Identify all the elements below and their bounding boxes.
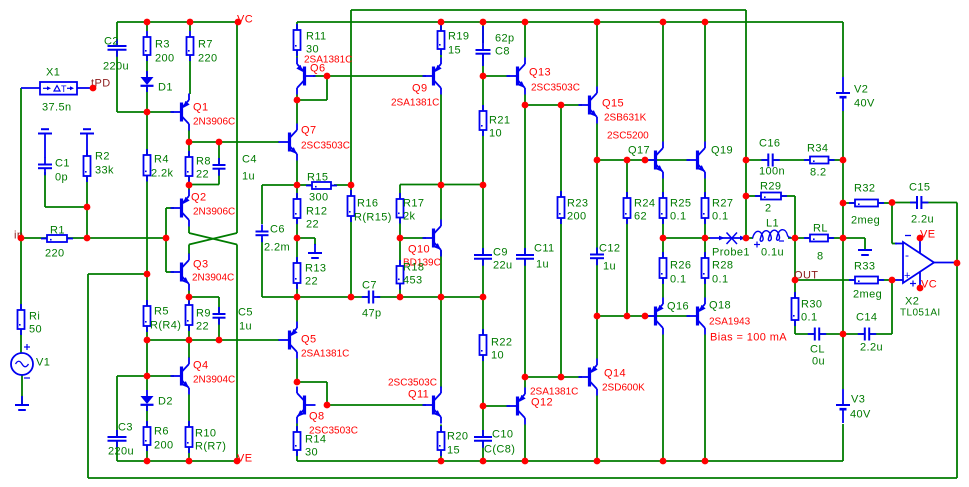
wire (297, 184, 311, 186)
junction (840, 235, 847, 242)
svg-text:8.2: 8.2 (810, 167, 827, 179)
wire (483, 75, 510, 77)
resistor R7 (187, 31, 218, 65)
wire (596, 259, 598, 317)
transistor Q11 (388, 378, 441, 424)
wire (662, 238, 664, 258)
junction (438, 19, 445, 26)
capacitor C14 (856, 312, 883, 354)
transistor Q8 (297, 387, 358, 437)
svg-text:Q17: Q17 (628, 145, 650, 157)
svg-text:2N3906C: 2N3906C (193, 207, 235, 218)
svg-text:Q8: Q8 (309, 411, 324, 423)
wire (188, 245, 190, 255)
junction (186, 182, 193, 189)
wire (524, 105, 526, 255)
svg-text:220u: 220u (108, 446, 134, 458)
junction (294, 182, 301, 189)
svg-text:C10: C10 (492, 429, 513, 441)
node VC (237, 14, 253, 26)
wire (704, 278, 706, 298)
svg-text:0.1: 0.1 (712, 274, 729, 286)
svg-text:Q14: Q14 (604, 368, 626, 380)
wire (146, 376, 148, 390)
wire (524, 425, 526, 462)
wire (296, 450, 298, 461)
wire (482, 406, 484, 437)
svg-text:Q18: Q18 (709, 300, 731, 312)
resistor R32 (849, 183, 884, 227)
resistor R19 (438, 25, 470, 57)
svg-text:R29: R29 (760, 181, 781, 193)
wire (704, 238, 706, 258)
svg-text:2SA1381C: 2SA1381C (391, 98, 439, 109)
svg-text:T: T (61, 84, 67, 94)
svg-text:C2: C2 (104, 36, 119, 48)
wire (704, 218, 706, 238)
junction (660, 235, 667, 242)
wire (146, 445, 148, 461)
wire (921, 202, 957, 204)
junction (438, 458, 445, 465)
resistor R2 (84, 150, 115, 182)
wire (313, 75, 327, 77)
wire (296, 283, 298, 297)
wire (399, 218, 401, 239)
wire (296, 238, 298, 263)
wire (662, 179, 664, 199)
svg-text:R2: R2 (95, 151, 110, 163)
svg-text:Q4: Q4 (193, 360, 208, 372)
wire (662, 278, 664, 298)
resistor R17 (397, 193, 425, 224)
junction (522, 19, 529, 26)
junction (144, 373, 151, 380)
wire (482, 441, 484, 461)
wire (326, 382, 328, 405)
wire (746, 237, 753, 239)
wire (746, 195, 761, 197)
svg-text:2SC3503C: 2SC3503C (531, 83, 580, 94)
wire (117, 460, 237, 462)
svg-text:Bias = 100 mA: Bias = 100 mA (710, 332, 787, 344)
resistor R15 (306, 172, 337, 204)
wire (794, 196, 796, 238)
wire (189, 296, 219, 298)
svg-text:200: 200 (567, 211, 587, 223)
junction (889, 277, 896, 284)
svg-text:22: 22 (306, 219, 319, 231)
wire (440, 297, 442, 388)
wire (842, 238, 844, 334)
wire (482, 185, 484, 255)
svg-text:R16: R16 (357, 198, 378, 210)
wire (117, 21, 238, 23)
wire (399, 238, 401, 266)
svg-text:8: 8 (817, 251, 824, 263)
wire (45, 206, 87, 208)
wire (704, 179, 706, 199)
svg-text:D1: D1 (158, 82, 173, 94)
junction (480, 403, 487, 410)
resistor R29 (755, 181, 787, 215)
junction (187, 19, 194, 26)
junction (480, 182, 487, 189)
svg-text:40V: 40V (850, 409, 871, 421)
junction (144, 109, 151, 116)
svg-text:0p: 0p (55, 172, 68, 184)
wire (236, 245, 238, 462)
wire (400, 184, 441, 186)
svg-text:100n: 100n (759, 166, 785, 178)
svg-text:37.5n: 37.5n (42, 102, 72, 114)
svg-text:R(R15): R(R15) (354, 212, 392, 224)
wire (21, 237, 166, 239)
wire (662, 335, 664, 462)
wire (146, 112, 148, 155)
junction (660, 458, 667, 465)
capacitor C9 (474, 247, 513, 272)
wire (188, 340, 190, 358)
wire (117, 111, 147, 113)
wire (662, 218, 664, 238)
wire (843, 333, 865, 335)
svg-text:R8: R8 (196, 156, 211, 168)
capacitor C11 (516, 243, 555, 271)
resistor R1 (41, 225, 73, 260)
wire (189, 55, 191, 94)
svg-text:10: 10 (491, 350, 504, 362)
wire (843, 237, 865, 239)
svg-text:0u: 0u (812, 356, 825, 368)
wire (296, 218, 298, 238)
svg-text:R7: R7 (198, 39, 213, 51)
svg-text:R3: R3 (155, 39, 170, 51)
svg-text:Q1: Q1 (193, 102, 208, 114)
wire (663, 237, 705, 239)
wire (377, 296, 483, 298)
svg-text:220: 220 (198, 53, 218, 65)
junction (889, 199, 896, 206)
current probe Probe1 (710, 233, 750, 259)
svg-text:R26: R26 (670, 260, 691, 272)
svg-text:Q5: Q5 (301, 334, 316, 346)
wire (400, 237, 426, 239)
svg-text:453: 453 (403, 275, 423, 287)
junction (348, 182, 355, 189)
svg-text:R24: R24 (634, 198, 655, 210)
resistor R5 (144, 300, 182, 332)
wire (20, 238, 22, 310)
wire (296, 95, 298, 101)
resistor R23 (558, 191, 589, 224)
svg-text:R11: R11 (306, 31, 327, 43)
wire (189, 184, 219, 186)
svg-text:2meg: 2meg (853, 289, 882, 301)
wire (440, 185, 442, 220)
svg-text:C1: C1 (55, 158, 70, 170)
wire (560, 105, 562, 197)
svg-text:C5: C5 (238, 307, 253, 319)
wire (146, 274, 148, 306)
svg-text:V1: V1 (36, 357, 50, 369)
transistor Q12 (507, 387, 579, 425)
resistor R24 (624, 192, 656, 224)
wire (146, 326, 148, 340)
junction (438, 294, 445, 301)
wire (843, 202, 855, 204)
junction (186, 294, 193, 301)
svg-text:Q13: Q13 (529, 67, 551, 79)
svg-text:C4: C4 (242, 154, 257, 166)
wire (482, 130, 484, 185)
junction (397, 294, 404, 301)
svg-text:R6: R6 (154, 426, 169, 438)
junction (348, 294, 355, 301)
svg-text:2SA1381C: 2SA1381C (301, 349, 349, 360)
capacitor C15 (909, 182, 934, 226)
wire (261, 238, 263, 297)
ground above R2 (80, 129, 94, 156)
junction (186, 139, 193, 146)
junction VC (235, 19, 242, 26)
wire (482, 355, 484, 406)
wire (296, 22, 298, 30)
svg-text:X1: X1 (46, 67, 60, 79)
wire (794, 238, 796, 298)
svg-text:R33: R33 (854, 261, 875, 273)
wire (188, 395, 190, 428)
wire (218, 168, 220, 185)
svg-text:0.1u: 0.1u (761, 247, 784, 259)
resistor R22 (480, 329, 513, 362)
svg-text:Q11: Q11 (408, 389, 429, 401)
junction (594, 157, 601, 164)
transistor Q6 (296, 55, 352, 95)
wire (829, 159, 844, 161)
junction VE X2 (917, 235, 924, 242)
wire (188, 130, 190, 157)
svg-text:200: 200 (154, 440, 174, 452)
svg-text:R17: R17 (403, 198, 424, 210)
svg-text:C9: C9 (493, 247, 508, 259)
wire (146, 55, 148, 77)
wire (116, 22, 118, 46)
capacitor C4 (213, 154, 257, 183)
wire (20, 88, 22, 238)
wire (218, 297, 220, 314)
resistor R26 (660, 252, 692, 286)
svg-text:2.2k: 2.2k (151, 168, 173, 180)
capacitor C2 (103, 36, 129, 73)
wire (440, 251, 442, 298)
wire (297, 237, 315, 239)
junction (397, 235, 404, 242)
resistor R9 (186, 299, 211, 333)
wire (440, 22, 442, 31)
wire (296, 161, 298, 186)
transistor Q19 (687, 142, 734, 179)
wire (296, 185, 298, 200)
resistor R27 (702, 192, 734, 224)
junction (594, 313, 601, 320)
wire (116, 50, 118, 112)
svg-text:RL: RL (813, 223, 828, 235)
wire (86, 176, 88, 238)
svg-text:220: 220 (45, 248, 65, 260)
wire (561, 104, 582, 106)
wire (20, 329, 22, 353)
transistor Q16 (645, 298, 690, 335)
wire (146, 405, 148, 428)
wire (146, 86, 148, 112)
ground at RL (858, 250, 872, 255)
junction (144, 271, 151, 278)
wire (334, 184, 351, 186)
wire (350, 216, 352, 297)
junction OUT (792, 277, 799, 284)
wire (188, 447, 190, 461)
wire (596, 160, 598, 254)
junction (144, 337, 151, 344)
resistor R6 (144, 421, 174, 452)
diode D2 (141, 390, 173, 411)
wire (147, 339, 279, 341)
transistor Q15 (579, 87, 647, 124)
junction (216, 337, 223, 344)
wire (218, 142, 220, 165)
junction (660, 19, 667, 26)
svg-text:CL: CL (810, 344, 825, 356)
svg-text:2SC3503C: 2SC3503C (301, 141, 350, 152)
junction (702, 235, 709, 242)
svg-text:Q9: Q9 (412, 83, 427, 95)
resistor R20 (438, 426, 469, 457)
wire (788, 237, 810, 239)
transistor Q7 (279, 124, 350, 161)
wire (166, 207, 174, 209)
wire (350, 185, 352, 196)
junction (594, 458, 601, 465)
bias annotation (710, 332, 787, 344)
wire (705, 237, 710, 239)
svg-text:-: - (905, 248, 909, 262)
wire (147, 375, 174, 377)
wire (314, 238, 316, 245)
svg-text:33k: 33k (95, 165, 114, 177)
node VE at X2 (920, 229, 935, 241)
junction (840, 157, 847, 164)
resistor R21 (480, 105, 511, 140)
wire (781, 195, 795, 197)
wire (842, 203, 844, 238)
junction (743, 235, 750, 242)
wire (218, 318, 220, 341)
svg-text:C3: C3 (118, 422, 133, 434)
capacitor C7 (362, 280, 382, 320)
junction (522, 102, 529, 109)
transistor Q14 (579, 359, 646, 396)
junction (480, 73, 487, 80)
svg-text:2meg: 2meg (851, 215, 880, 227)
wire (662, 22, 664, 142)
wire (350, 10, 352, 185)
junction (594, 19, 601, 26)
junction (294, 294, 301, 301)
capacitor CL (808, 328, 826, 368)
wire (297, 21, 843, 23)
svg-text:2SC3503C: 2SC3503C (388, 378, 437, 389)
junction (84, 235, 91, 242)
wire (166, 271, 174, 273)
svg-text:22: 22 (196, 321, 209, 333)
transistor Q10 (403, 220, 441, 269)
wire (596, 316, 598, 359)
svg-text:2.2u: 2.2u (911, 214, 934, 226)
wire (561, 376, 582, 378)
svg-text:C12: C12 (599, 243, 620, 255)
wire (828, 237, 843, 239)
wire (524, 95, 526, 106)
junction (144, 19, 151, 26)
wire (262, 296, 297, 298)
wire (842, 424, 844, 461)
resistor R28 (702, 252, 734, 286)
svg-text:R30: R30 (801, 299, 822, 311)
wire (596, 124, 598, 161)
svg-text:X2: X2 (905, 296, 919, 308)
wire (956, 203, 958, 479)
junction (702, 458, 709, 465)
svg-text:R32: R32 (854, 183, 875, 195)
svg-text:Q7: Q7 (301, 125, 316, 137)
svg-text:R22: R22 (491, 337, 512, 349)
ground at V1 (15, 396, 29, 410)
junction (324, 402, 331, 409)
svg-text:2N3906C: 2N3906C (193, 117, 235, 128)
junction (186, 458, 193, 465)
svg-text:Q10: Q10 (408, 244, 430, 256)
wire (399, 284, 401, 298)
svg-text:C7: C7 (362, 280, 377, 292)
svg-text:R19: R19 (448, 31, 469, 43)
wire (892, 243, 897, 245)
resistor R4 (144, 149, 174, 182)
junction (480, 19, 487, 26)
wire (147, 111, 174, 113)
wire (88, 273, 147, 275)
resistor R13 (294, 257, 327, 289)
svg-text:V3: V3 (851, 394, 865, 406)
resistor R12 (294, 193, 328, 231)
wire (21, 375, 23, 404)
junction (792, 235, 799, 242)
svg-text:1u: 1u (239, 321, 252, 333)
resistor Ri (18, 304, 43, 336)
wire (296, 297, 298, 322)
wire (626, 160, 628, 198)
svg-text:47p: 47p (362, 308, 382, 320)
wire (524, 259, 526, 377)
junction (840, 200, 847, 207)
wire (440, 425, 442, 433)
wire (189, 22, 191, 31)
resistor R25 (660, 192, 692, 224)
wire (441, 184, 483, 186)
transistor Q2 (171, 190, 236, 227)
junction (743, 157, 750, 164)
wire (842, 22, 844, 77)
